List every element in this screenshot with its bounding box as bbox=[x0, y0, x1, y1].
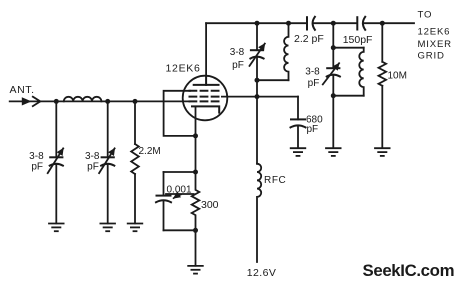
node: RC top junction bbox=[193, 170, 198, 175]
ground (C2) bbox=[100, 224, 115, 232]
wire: C4 lower lead bbox=[163, 200, 165, 230]
svg-text:GRID: GRID bbox=[418, 50, 445, 61]
tube cathode bbox=[192, 106, 219, 112]
wire: R3 lower lead bbox=[381, 86, 383, 148]
node: junction main line / C2 bbox=[105, 99, 110, 104]
tube grid g1 (control, dashed) bbox=[190, 100, 219, 102]
svg-text:3-8: 3-8 bbox=[230, 47, 245, 58]
wire: tank2 bottom bar bbox=[333, 95, 363, 97]
node: screen line junction bbox=[255, 94, 260, 99]
wire: C3 branch upper bbox=[256, 23, 258, 50]
svg-text:150pF: 150pF bbox=[343, 34, 373, 46]
node: junction main line / R1 bbox=[133, 99, 138, 104]
label C2 value 3-8 pF bbox=[85, 151, 100, 172]
node: junction main line / C1 bbox=[54, 99, 59, 104]
svg-text:TO: TO bbox=[418, 10, 433, 21]
svg-text:12EK6: 12EK6 bbox=[166, 63, 201, 75]
wire: g3-to-cathode bracket bbox=[164, 91, 196, 136]
node: rail / tank2 branch bbox=[331, 21, 336, 26]
svg-text:SeekIC.com: SeekIC.com bbox=[363, 261, 455, 280]
label C3 value 3-8 pF bbox=[230, 47, 245, 71]
wire: cathode to RC network bbox=[195, 136, 197, 172]
wire: C1 branch lower bbox=[55, 164, 57, 223]
node: rail / L2 branch bbox=[286, 21, 291, 26]
node: cathode junction bbox=[193, 133, 198, 138]
svg-text:pF: pF bbox=[87, 161, 99, 172]
variable capacitor C3 3-8pF bbox=[250, 44, 265, 66]
wire: 680pF upper lead bbox=[297, 97, 299, 120]
resistor R2 300 bbox=[192, 172, 200, 230]
wire: R1 branch lower bbox=[134, 174, 136, 223]
capacitor C8 150pF (series) bbox=[357, 17, 365, 30]
ground (R1) bbox=[128, 224, 143, 232]
wire: tank2 left branch lower bbox=[332, 75, 334, 148]
ground (C1) bbox=[49, 224, 64, 232]
tube grid g3 (suppressor, dashed) bbox=[190, 90, 219, 92]
svg-text:pF: pF bbox=[308, 78, 320, 89]
wire: C4 upper lead bbox=[163, 172, 165, 196]
wire: tank2 top bar bbox=[333, 47, 363, 49]
label C4 value 0.001 with leader arrow bbox=[166, 184, 194, 198]
wire: L2 bottom to C3 branch bbox=[257, 79, 289, 81]
inductor L1 antenna coil bbox=[64, 97, 102, 102]
node: L2 bottom junction bbox=[255, 78, 260, 83]
svg-text:12EK6: 12EK6 bbox=[418, 27, 451, 38]
resistor R3 10M bbox=[378, 62, 386, 86]
svg-text:ANT.: ANT. bbox=[10, 84, 35, 96]
svg-text:300: 300 bbox=[201, 199, 219, 211]
node: RC bottom junction bbox=[193, 228, 198, 233]
wire: RC to ground bbox=[195, 230, 197, 265]
node: tank2 top junction bbox=[331, 45, 336, 50]
resistor R1 2.2M bbox=[131, 144, 139, 174]
ground (680pF) bbox=[291, 148, 306, 156]
variable capacitor C1 3-8pF bbox=[48, 148, 64, 173]
svg-text:RFC: RFC bbox=[264, 175, 286, 186]
wire: R1 branch upper bbox=[134, 101, 136, 144]
ground (R3) bbox=[375, 148, 390, 156]
node: rail / R3 output branch bbox=[380, 21, 385, 26]
wire: top rail (plate line) bbox=[206, 22, 414, 24]
svg-text:3-8: 3-8 bbox=[305, 67, 320, 78]
capacitor C5 680pF bbox=[291, 119, 306, 127]
node: tank2 bottom junction bbox=[331, 93, 336, 98]
ground (cathode) bbox=[188, 266, 203, 274]
ground (tank2) bbox=[326, 148, 341, 156]
svg-text:pF: pF bbox=[307, 124, 319, 135]
wire: antenna input line bbox=[10, 100, 190, 102]
capacitor C4 0.001 bbox=[156, 196, 171, 203]
wire: C1 branch upper bbox=[55, 101, 57, 157]
label output: TO 12EK6 MIXER GRID bbox=[418, 10, 452, 62]
svg-text:2.2 pF: 2.2 pF bbox=[294, 33, 324, 45]
variable capacitor C7 3-8pF bbox=[323, 63, 340, 84]
wire: C2 branch lower bbox=[107, 164, 109, 223]
wire: C2 branch upper bbox=[107, 101, 109, 157]
wire: screen grid line bbox=[222, 96, 298, 98]
wire: RC top bar bbox=[164, 171, 196, 173]
wire: C3 branch lower / screen feed bbox=[256, 57, 258, 164]
tube V1 12EK6 envelope bbox=[183, 76, 228, 121]
inductor L3 (second tank coil) bbox=[359, 48, 363, 96]
wire: 680pF lower lead bbox=[297, 126, 299, 148]
svg-text:pF: pF bbox=[31, 161, 43, 172]
svg-text:pF: pF bbox=[232, 60, 244, 71]
variable capacitor C2 3-8pF bbox=[99, 148, 115, 173]
label C7 value 3-8 pF bbox=[305, 67, 320, 89]
tube grid g2 (screen, dashed) bbox=[190, 96, 219, 98]
capacitor C6 2.2pF (series) bbox=[307, 17, 315, 30]
svg-text:10M: 10M bbox=[388, 71, 407, 82]
label C1 value 3-8 pF bbox=[29, 151, 44, 172]
node: rail / C3 branch bbox=[255, 21, 260, 26]
antenna arrowhead (open chevron) bbox=[33, 97, 41, 106]
tube plate bbox=[194, 76, 219, 85]
wire: tank2 left branch upper bbox=[332, 23, 334, 68]
wire: R3 upper lead bbox=[381, 23, 383, 62]
wire: cathode lead bbox=[195, 106, 197, 136]
label C5 value 680 pF bbox=[306, 115, 323, 135]
svg-text:MIXER: MIXER bbox=[418, 39, 452, 50]
antenna arrowhead (filled) bbox=[22, 97, 32, 105]
svg-text:2.2M: 2.2M bbox=[139, 146, 161, 157]
svg-text:12.6V: 12.6V bbox=[247, 267, 276, 279]
wire: RC bottom bar bbox=[164, 229, 196, 231]
inductor RFC bbox=[257, 164, 261, 262]
wire: plate riser to top rail bbox=[205, 23, 207, 76]
inductor L2 (first tank coil) bbox=[284, 23, 288, 80]
